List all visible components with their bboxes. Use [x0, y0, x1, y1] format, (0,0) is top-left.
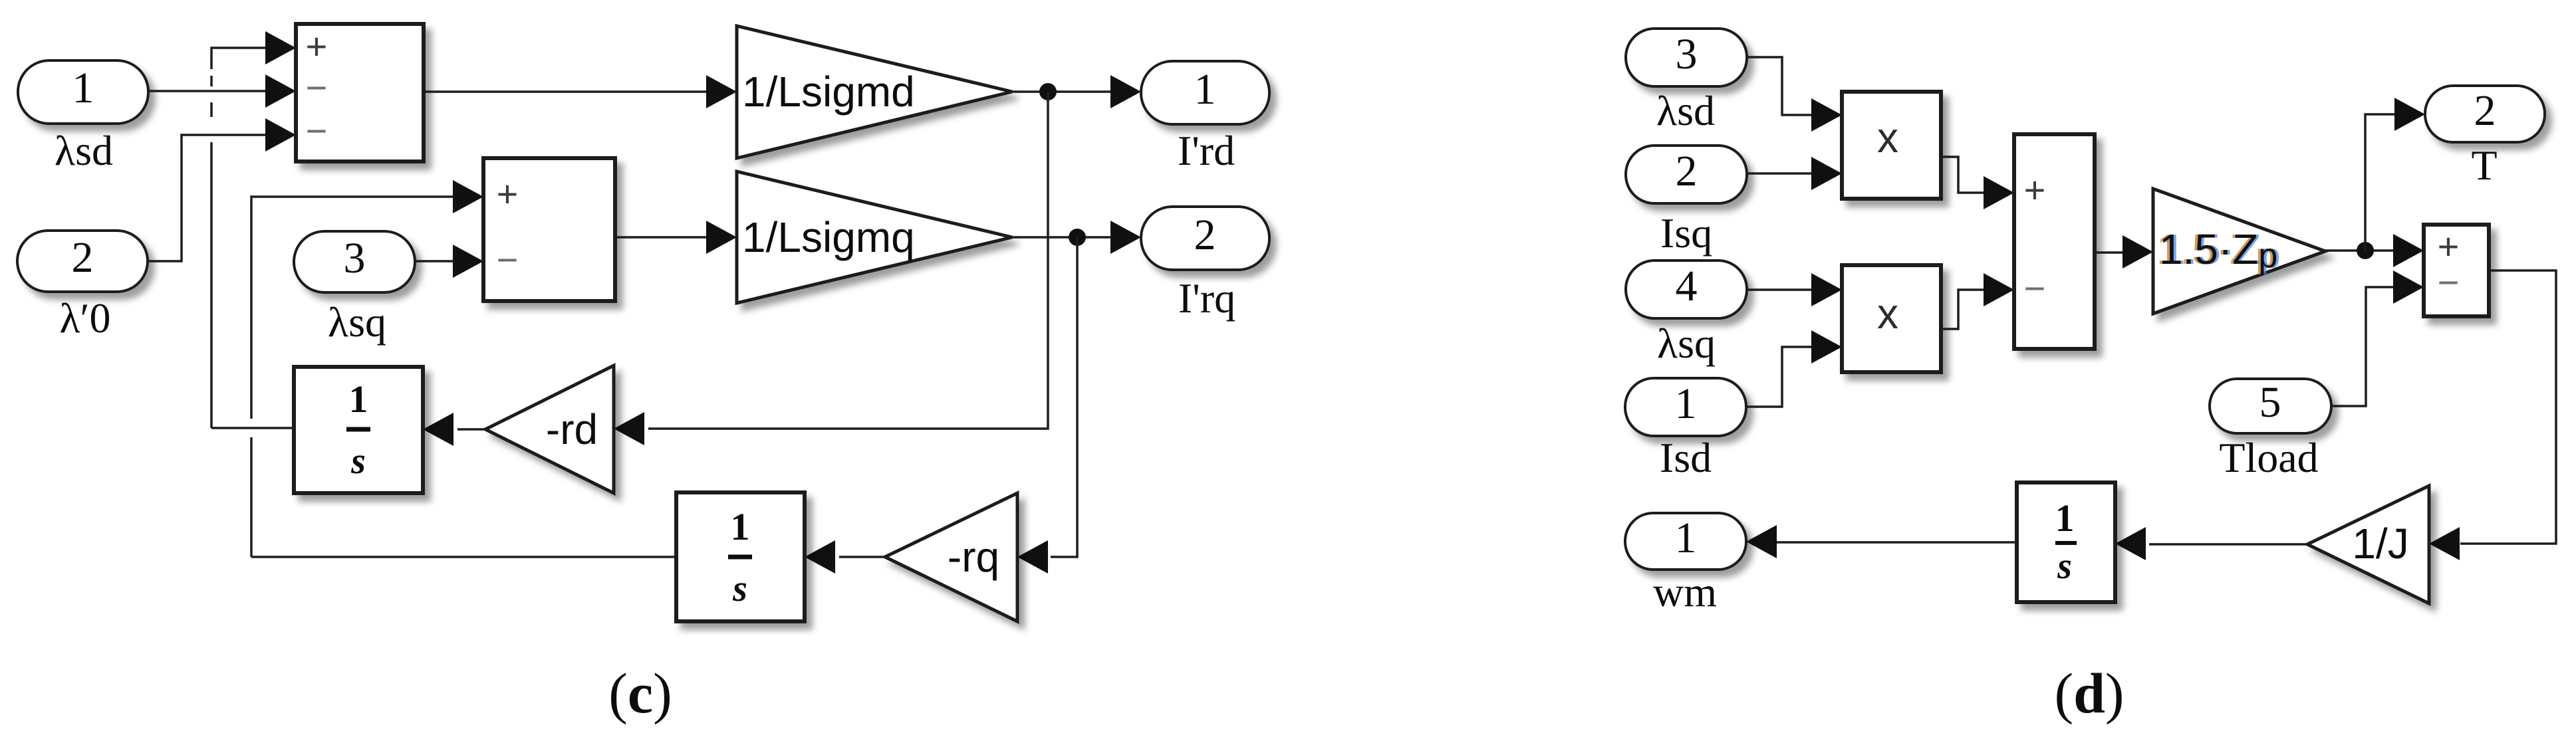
svg-text:x: x	[1877, 114, 1898, 161]
svg-text:Isq: Isq	[1660, 209, 1712, 257]
wire port2 to sum1	[148, 135, 266, 261]
arrowhead into gain 1/J	[2429, 527, 2460, 560]
arrowhead into X2 in2	[1811, 330, 1842, 364]
wire gain to outport 1	[1012, 90, 1112, 93]
svg-text:1: 1	[349, 377, 368, 421]
svg-text:λsq: λsq	[328, 298, 386, 346]
wire J3 up to outport T	[2365, 114, 2395, 251]
svg-text:wm: wm	[1653, 568, 1717, 615]
arrowhead into outport1	[1110, 75, 1141, 108]
wire feedback loop from integrator 1/s to sum1 +	[211, 427, 294, 429]
svg-text:s: s	[350, 441, 366, 482]
wire port3d to product X1	[1747, 57, 1812, 115]
svg-text:3: 3	[1676, 30, 1698, 78]
svg-text:2: 2	[1194, 211, 1216, 259]
sum block D2	[2424, 225, 2489, 316]
arrowhead into gain -rd	[614, 412, 644, 445]
wire Isd to product X2	[1746, 347, 1812, 407]
wire port4d to product X2	[1747, 288, 1812, 291]
svg-text:−: −	[2024, 267, 2046, 309]
svg-text:1: 1	[731, 505, 750, 548]
arrowhead into gain -rq	[1017, 540, 1048, 574]
svg-text:2: 2	[72, 233, 94, 282]
svg-text:I'rq: I'rq	[1178, 274, 1235, 322]
arrowhead into sum1 in3	[265, 118, 296, 152]
wire -rd out to integrator 1	[457, 428, 485, 431]
inport 5 oval Tload	[2210, 378, 2331, 433]
svg-text:1/J: 1/J	[2352, 520, 2408, 568]
gain 1/Lsigmd	[737, 26, 1012, 158]
wire gain to outport 2	[1012, 236, 1112, 239]
wire port1 to sum1	[148, 90, 266, 92]
gain -rq	[885, 493, 1017, 621]
svg-text:s: s	[732, 568, 747, 609]
inport 4 oval d	[1626, 261, 1747, 318]
inport 3 oval d	[1626, 29, 1747, 86]
svg-text:1: 1	[1675, 379, 1697, 428]
arrowhead into outport wm	[1746, 525, 1777, 558]
inport 2 oval d	[1626, 146, 1747, 203]
svg-text:(d): (d)	[2054, 661, 2124, 725]
arrowhead into outport2	[1110, 221, 1141, 254]
wire Tload to sum D2 -	[2331, 287, 2394, 406]
inport 3 oval	[294, 231, 415, 292]
svg-text:+: +	[497, 173, 519, 215]
integrator 1/s C2	[676, 492, 805, 621]
svg-text:-rq: -rq	[948, 533, 999, 581]
sum block S1	[296, 24, 424, 161]
inport 2 oval	[17, 231, 148, 292]
wire J2 down to gain -rq	[1051, 237, 1077, 557]
wire integrator D out to outport wm	[1777, 541, 2017, 544]
arrowhead into gain 1/Lsigmq	[706, 221, 737, 254]
svg-text:3: 3	[344, 234, 366, 282]
svg-text:x: x	[1877, 290, 1898, 338]
arrowhead into gain 1/Lsigmd	[706, 75, 737, 108]
arrowhead into sum1 in1	[265, 31, 296, 64]
arrowhead into sum1 in2	[265, 74, 296, 108]
wire 1/J out to integrator D	[2149, 543, 2307, 546]
gain 1/J	[2307, 486, 2429, 603]
wire sum1 out to gain 1/Lsigmd	[424, 90, 708, 93]
svg-text:I'rd: I'rd	[1178, 127, 1235, 174]
svg-text:1: 1	[1675, 514, 1697, 562]
svg-text:2: 2	[2474, 86, 2496, 135]
arrowhead into sumD2 +	[2393, 234, 2424, 267]
svg-text:−: −	[306, 110, 328, 152]
arrowhead into sum2 -	[453, 245, 483, 278]
outport 2 oval	[1141, 207, 1269, 270]
svg-text:λ′0: λ′0	[59, 294, 110, 342]
arrowhead into gain 1.5Zp	[2123, 235, 2153, 268]
inport 1 oval	[18, 60, 148, 124]
wire X1 out to sum D1 +	[1941, 157, 1987, 193]
wire X2 out to sum D1 -	[1941, 290, 1987, 329]
wire sum2 + input from integrator 2 output	[251, 556, 676, 558]
svg-text:+: +	[2024, 169, 2046, 211]
svg-text:λsd: λsd	[55, 127, 113, 174]
svg-text:−: −	[497, 239, 519, 280]
svg-text:T: T	[2471, 142, 2497, 189]
svg-text:−: −	[306, 66, 328, 108]
arrowhead into sumD2 -	[2393, 270, 2424, 304]
svg-text:λsq: λsq	[1657, 320, 1716, 367]
svg-text:+: +	[306, 25, 328, 67]
arrowhead into X1 in2	[1811, 157, 1842, 190]
arrowhead into integrator 2	[805, 540, 835, 574]
svg-text:s: s	[2057, 546, 2072, 587]
node junction J2	[1069, 229, 1086, 246]
wire gain out through J3 to sum D2 +	[2325, 249, 2394, 252]
sum block S2	[483, 158, 615, 301]
inport 1 oval Isd	[1625, 378, 1746, 436]
wire J1 down to gain -rd	[648, 92, 1048, 429]
arrowhead into X1 in1	[1811, 98, 1842, 132]
arrowhead into sumD1 +	[1984, 176, 2014, 209]
wire sumD2 out down to gain 1/J	[2460, 270, 2556, 544]
svg-text:(c): (c)	[608, 661, 672, 725]
svg-text:4: 4	[1676, 262, 1698, 310]
arrowhead into X2 in1	[1811, 273, 1842, 306]
svg-text:1/Lsigmq: 1/Lsigmq	[742, 213, 915, 261]
product block X2	[1842, 265, 1941, 372]
arrowhead into integrator D	[2115, 527, 2146, 560]
svg-text:λsd: λsd	[1656, 87, 1715, 134]
arrowhead into integrator 1	[423, 413, 453, 446]
svg-text:1: 1	[1194, 65, 1216, 114]
gain 1/Lsigmq	[737, 171, 1012, 303]
integrator 1/s D	[2017, 482, 2115, 602]
arrowhead into outport T	[2394, 98, 2425, 131]
node junction J1	[1039, 83, 1057, 100]
svg-text:5: 5	[2259, 378, 2281, 427]
outport 1 oval wm	[1625, 513, 1746, 570]
svg-text:Tload: Tload	[2219, 434, 2318, 481]
svg-text:1: 1	[2055, 496, 2075, 540]
wire sumD1 out to gain 1.5Zp	[2095, 251, 2125, 254]
svg-text:−: −	[2438, 261, 2460, 303]
gain -rd	[485, 366, 614, 493]
gain 1.5·Zp	[2153, 189, 2325, 314]
wire -rq out to integrator 2	[839, 556, 885, 558]
arrowhead into sum2 +	[453, 180, 483, 213]
product block X1	[1842, 92, 1941, 199]
svg-text:2: 2	[1676, 147, 1698, 195]
outport 2 oval T	[2425, 86, 2545, 142]
arrowhead into sumD1 -	[1984, 273, 2014, 306]
svg-text:Isd: Isd	[1660, 434, 1712, 481]
wire port2d to product X1	[1747, 172, 1812, 175]
wire port3 to sum2 -	[415, 260, 453, 263]
sum block D1	[2014, 134, 2095, 349]
wire sum2 out to gain 1/Lsigmq	[615, 236, 708, 239]
outport 1 oval	[1141, 61, 1269, 124]
node junction J3	[2357, 242, 2374, 259]
integrator 1/s C1	[294, 367, 423, 493]
svg-text:1/Lsigmd: 1/Lsigmd	[742, 68, 915, 116]
svg-text:-rd: -rd	[546, 405, 598, 453]
svg-text:1: 1	[72, 64, 94, 112]
